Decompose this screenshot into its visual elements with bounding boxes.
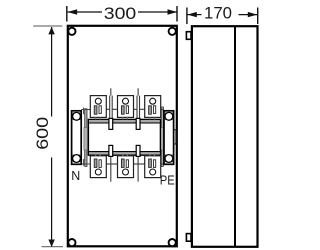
- cover screw bottom-left: [68, 239, 75, 246]
- cover hinge stub top 1: [109, 118, 113, 129]
- fuse unit 1 top terminal: [90, 96, 106, 120]
- dimension 600 extension line bottom: [42, 246, 64, 248]
- fuse base right side plate: [161, 107, 163, 166]
- wall mounting tab bottom: [186, 234, 191, 242]
- cover screw top-right: [169, 28, 176, 35]
- cover screw bottom-right: [169, 239, 176, 246]
- dimension 600 extension line top: [33, 25, 62, 27]
- dimension 170 extension tick right: [257, 8, 259, 25]
- fuse unit 2 bottom terminal: [118, 154, 134, 178]
- phase barrier 1: [110, 88, 113, 181]
- cover hinge stub top 2: [136, 118, 140, 129]
- svg-text:N: N: [71, 168, 80, 183]
- dimension 600 line upper segment: [51, 27, 53, 117]
- fuse unit 1 bottom terminal: [90, 154, 106, 178]
- left side plate tab: [84, 128, 87, 151]
- busbar stubs top row: [106, 108, 144, 110]
- fuse unit 3 bottom terminal: [145, 154, 161, 178]
- wall mounting tab top: [186, 32, 191, 40]
- dimension 300 extension tick right: [176, 6, 178, 22]
- fuse cover band: [88, 119, 160, 155]
- dimension 170 line left segment: [187, 14, 201, 16]
- dimension 170 line right segment: [239, 14, 258, 16]
- fuse base left side plate: [85, 109, 87, 167]
- dimension 170 arrow right: [248, 12, 257, 17]
- dimension 300 extension tick left: [66, 6, 68, 22]
- fuse unit 3 top terminal: [145, 96, 161, 120]
- cover hinge stub bottom 1: [109, 145, 113, 156]
- dimension 300 line left segment: [68, 11, 102, 13]
- dimension 600 arrow down: [48, 240, 54, 248]
- PE feed stub top: [159, 107, 165, 114]
- cover hinge stub bottom 2: [136, 145, 140, 156]
- dimension 300 arrow right: [168, 9, 178, 14]
- dimension 300 arrow left: [68, 9, 78, 14]
- N terminal block: [72, 111, 82, 165]
- side view cover split line: [234, 27, 236, 246]
- enclosure front view outline: [68, 26, 177, 247]
- PE terminal block: [164, 111, 176, 165]
- svg-text:PE: PE: [160, 173, 175, 188]
- dimension 600 arrow up: [48, 27, 54, 35]
- PE feed stub bottom: [159, 160, 165, 167]
- dimension 170 arrow left: [187, 12, 197, 17]
- cover screw top-left: [68, 28, 75, 35]
- svg-text:600: 600: [33, 117, 52, 150]
- svg-text:300: 300: [104, 4, 137, 23]
- svg-text:170: 170: [204, 4, 232, 23]
- fuse unit 2 top terminal: [118, 96, 134, 120]
- phase barrier 2: [137, 88, 140, 181]
- enclosure side view outline: [192, 26, 258, 247]
- busbar stubs bottom row: [106, 163, 144, 165]
- dimension 600 line lower segment: [51, 158, 53, 247]
- dimension 300 line right segment: [138, 11, 177, 13]
- right side plate tab: [160, 128, 163, 151]
- dimension 170 extension tick left: [186, 8, 188, 25]
- N feed stub top: [81, 108, 90, 115]
- N feed stub bottom: [81, 159, 90, 166]
